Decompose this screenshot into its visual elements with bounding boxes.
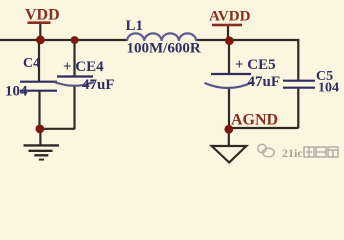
- svg-text:VDD: VDD: [25, 7, 60, 24]
- power AVDD bar: [212, 24, 242, 27]
- svg-text:AVDD: AVDD: [209, 8, 251, 24]
- wire: AGND stub: [228, 129, 230, 146]
- wire: bottom-left horizontal: [39, 128, 75, 130]
- node GND junction: [36, 124, 45, 133]
- svg-text:C4: C4: [23, 56, 40, 71]
- wire: CE4 bottom lead: [73, 86, 75, 130]
- inductor L1: [127, 33, 196, 41]
- node AGND junction: [224, 125, 233, 134]
- wire: bottom-right horizontal from AGND node to right branch: [229, 127, 299, 129]
- capacitor CE5 (electrolytic): [211, 73, 251, 75]
- svg-text:47uF: 47uF: [248, 74, 281, 90]
- wire: right branch below C5 down to bottom wire: [297, 88, 299, 128]
- svg-text:104: 104: [318, 81, 339, 96]
- node AVDD junction: [225, 36, 234, 45]
- capacitor C4: [20, 82, 57, 91]
- ground (earth) symbol: [24, 144, 60, 146]
- wire: AVDD stub: [227, 26, 229, 41]
- wire: main rail left segment: [0, 39, 127, 41]
- watermark logo: [258, 144, 275, 157]
- wire: CE5 bottom lead: [228, 89, 230, 130]
- wire: CE4 top lead: [73, 40, 75, 77]
- svg-text:+ CE5: + CE5: [235, 57, 276, 73]
- capacitor C5: [283, 81, 315, 88]
- svg-text:+ CE4: + CE4: [63, 59, 104, 75]
- svg-text:L1: L1: [126, 18, 144, 34]
- wire: GND stub: [39, 129, 41, 145]
- wire: CE5 top lead: [228, 41, 230, 74]
- svg-text:47uF: 47uF: [82, 77, 115, 93]
- ground AGND triangle: [212, 146, 247, 163]
- capacitor CE4 (electrolytic): [57, 75, 93, 77]
- svg-text:104: 104: [5, 84, 28, 100]
- wire: C4 top lead: [38, 40, 40, 81]
- svg-text:AGND: AGND: [231, 112, 278, 129]
- wire: main rail right segment with corner down to C5: [196, 40, 298, 81]
- wire: VDD stub: [39, 24, 41, 40]
- svg-text:100M/600R: 100M/600R: [127, 40, 201, 56]
- wire: C4 bottom lead: [38, 91, 40, 129]
- power VDD bar: [28, 21, 51, 24]
- node CE4 junction: [71, 36, 79, 44]
- node VDD junction: [36, 36, 45, 45]
- svg-text:21ic: 21ic: [282, 146, 303, 160]
- watermark CJK blocks: [304, 147, 338, 157]
